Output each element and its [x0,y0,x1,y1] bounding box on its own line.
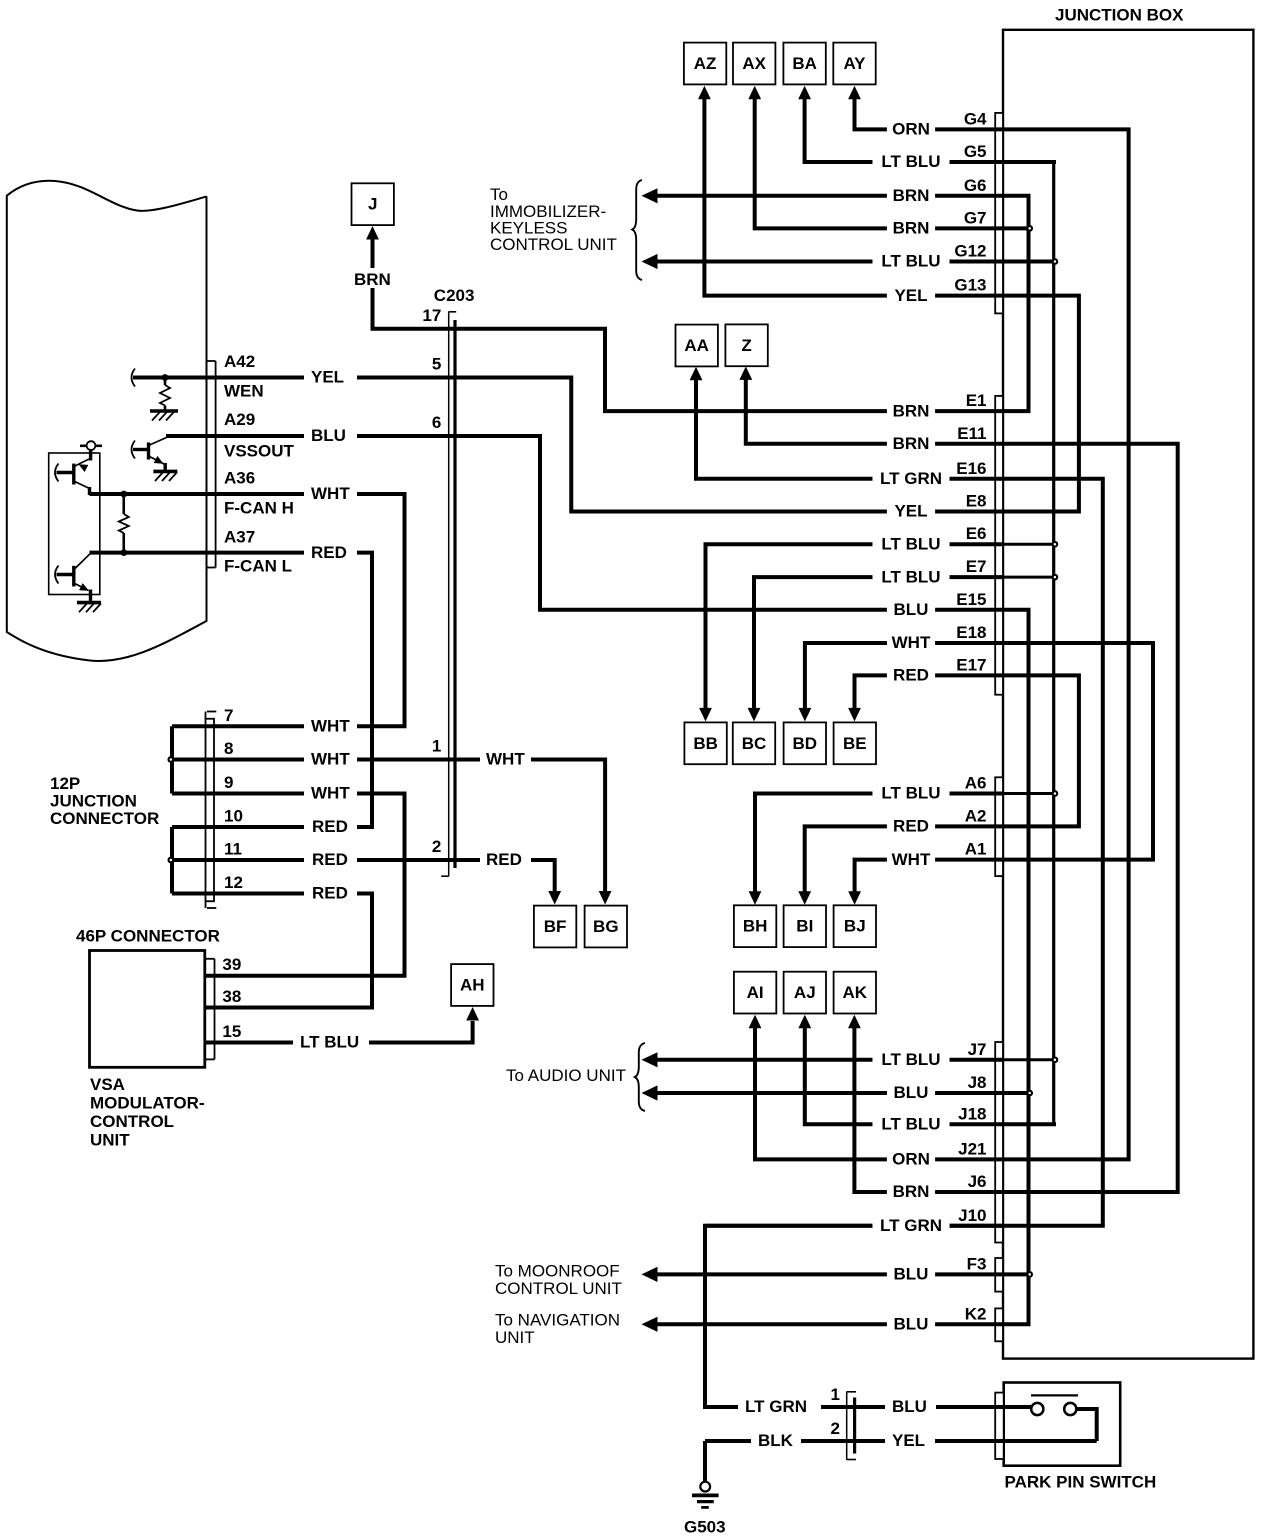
svg-text:46P CONNECTOR: 46P CONNECTOR [76,927,220,946]
svg-text:BRN: BRN [893,401,930,420]
svg-text:BLU: BLU [894,1083,929,1102]
svg-text:VSSOUT: VSSOUT [224,442,295,461]
svg-text:A37: A37 [224,528,255,547]
svg-text:A36: A36 [224,469,255,488]
svg-text:5: 5 [432,355,441,374]
svg-text:BE: BE [843,734,867,753]
svg-text:6: 6 [432,413,441,432]
svg-text:BF: BF [544,917,567,936]
svg-text:BLU: BLU [894,600,929,619]
svg-text:F3: F3 [967,1254,987,1273]
svg-text:39: 39 [222,955,241,974]
svg-text:RED: RED [312,850,348,869]
svg-text:YEL: YEL [311,368,344,387]
svg-text:CONTROL UNIT: CONTROL UNIT [495,1279,622,1298]
svg-text:AY: AY [843,54,866,73]
svg-text:CONNECTOR: CONNECTOR [50,809,159,828]
svg-text:PARK PIN SWITCH: PARK PIN SWITCH [1005,1473,1157,1492]
svg-text:A6: A6 [965,774,987,793]
svg-text:JUNCTION: JUNCTION [50,792,137,811]
svg-text:J7: J7 [968,1040,987,1059]
svg-text:MODULATOR-: MODULATOR- [90,1094,205,1113]
svg-text:E7: E7 [966,557,987,576]
svg-text:A29: A29 [224,410,255,429]
svg-text:WHT: WHT [311,716,350,735]
svg-text:8: 8 [224,739,233,758]
svg-text:J18: J18 [958,1104,986,1123]
svg-text:AJ: AJ [794,983,816,1002]
svg-text:WHT: WHT [311,784,350,803]
svg-text:ORN: ORN [892,1150,930,1169]
svg-text:AX: AX [742,54,766,73]
svg-text:A42: A42 [224,352,255,371]
svg-text:LT BLU: LT BLU [300,1033,359,1052]
svg-text:WHT: WHT [311,484,350,503]
svg-text:RED: RED [311,543,347,562]
svg-text:RED: RED [893,817,929,836]
svg-text:J6: J6 [968,1172,987,1191]
svg-text:AA: AA [684,336,709,355]
svg-text:RED: RED [312,817,348,836]
svg-text:To AUDIO UNIT: To AUDIO UNIT [506,1066,626,1085]
svg-text:BRN: BRN [893,219,930,238]
svg-text:AK: AK [843,983,868,1002]
svg-text:C203: C203 [434,286,475,305]
svg-text:BB: BB [693,734,718,753]
svg-text:15: 15 [222,1022,241,1041]
svg-text:BRN: BRN [893,434,930,453]
svg-text:J: J [368,195,377,214]
svg-text:VSA: VSA [90,1075,125,1094]
svg-text:38: 38 [222,987,241,1006]
svg-text:BRN: BRN [893,1182,930,1201]
svg-text:11: 11 [224,840,242,859]
svg-text:BG: BG [593,917,619,936]
svg-text:LT BLU: LT BLU [881,784,940,803]
svg-text:Z: Z [741,336,751,355]
svg-text:F-CAN L: F-CAN L [224,557,292,576]
svg-text:WHT: WHT [311,750,350,769]
svg-text:BJ: BJ [844,917,866,936]
svg-text:CONTROL: CONTROL [90,1112,174,1131]
svg-text:12: 12 [224,873,243,892]
svg-text:E1: E1 [966,391,987,410]
svg-text:E18: E18 [956,623,986,642]
svg-text:YEL: YEL [894,286,927,305]
svg-text:WEN: WEN [224,382,264,401]
svg-text:LT BLU: LT BLU [881,1050,940,1069]
svg-text:LT BLU: LT BLU [881,252,940,271]
svg-text:UNIT: UNIT [495,1328,535,1347]
svg-text:AZ: AZ [694,54,717,73]
svg-text:J8: J8 [968,1073,987,1092]
svg-text:BLU: BLU [894,1315,929,1334]
svg-text:BLK: BLK [758,1431,794,1450]
svg-text:K2: K2 [965,1304,987,1323]
svg-text:BD: BD [793,734,818,753]
svg-text:LT BLU: LT BLU [881,534,940,553]
svg-text:WHT: WHT [892,850,931,869]
svg-text:A2: A2 [965,806,987,825]
svg-text:J21: J21 [958,1139,986,1158]
svg-text:E17: E17 [956,655,986,674]
svg-text:WHT: WHT [486,750,525,769]
svg-text:BRN: BRN [893,186,930,205]
svg-text:E8: E8 [966,492,987,511]
svg-text:2: 2 [831,1419,840,1438]
svg-text:BLU: BLU [894,1265,929,1284]
svg-text:LT GRN: LT GRN [745,1397,807,1416]
svg-text:To MOONROOF: To MOONROOF [495,1262,620,1281]
svg-text:JUNCTION BOX: JUNCTION BOX [1055,6,1184,25]
svg-text:J10: J10 [958,1206,986,1225]
svg-text:LT BLU: LT BLU [881,567,940,586]
svg-text:RED: RED [486,850,522,869]
svg-text:LT GRN: LT GRN [880,469,942,488]
svg-text:F-CAN H: F-CAN H [224,499,294,518]
svg-text:E16: E16 [956,459,986,478]
svg-text:G503: G503 [684,1518,726,1537]
svg-text:G7: G7 [964,208,987,227]
svg-text:LT GRN: LT GRN [880,1216,942,1235]
svg-text:AH: AH [460,976,485,995]
svg-text:A1: A1 [965,840,987,859]
svg-text:G12: G12 [954,242,986,261]
svg-text:BA: BA [792,54,817,73]
svg-text:WHT: WHT [892,633,931,652]
svg-text:2: 2 [432,837,441,856]
svg-text:E6: E6 [966,524,987,543]
svg-text:G5: G5 [964,142,987,161]
svg-text:BRN: BRN [354,270,391,289]
svg-text:LT BLU: LT BLU [881,1115,940,1134]
svg-text:E11: E11 [957,424,986,443]
svg-text:E15: E15 [956,590,986,609]
svg-text:BH: BH [743,917,768,936]
svg-text:10: 10 [224,807,243,826]
svg-text:YEL: YEL [894,502,927,521]
svg-text:CONTROL UNIT: CONTROL UNIT [490,235,617,254]
svg-text:YEL: YEL [892,1431,925,1450]
svg-text:BLU: BLU [892,1397,927,1416]
svg-text:To NAVIGATION: To NAVIGATION [495,1311,620,1330]
svg-text:UNIT: UNIT [90,1131,130,1150]
svg-text:BC: BC [742,734,767,753]
svg-text:BLU: BLU [311,426,346,445]
svg-text:LT BLU: LT BLU [881,152,940,171]
svg-text:1: 1 [831,1385,840,1404]
svg-text:9: 9 [224,773,233,792]
svg-text:BI: BI [796,917,813,936]
svg-text:RED: RED [312,884,348,903]
svg-text:RED: RED [893,666,929,685]
svg-text:AI: AI [747,983,764,1002]
svg-text:17: 17 [422,306,441,325]
svg-text:1: 1 [432,737,441,756]
svg-text:G13: G13 [954,276,986,295]
svg-text:ORN: ORN [892,120,930,139]
svg-text:G4: G4 [964,109,987,128]
svg-text:12P: 12P [50,774,80,793]
svg-text:G6: G6 [964,176,987,195]
svg-text:7: 7 [224,706,233,725]
